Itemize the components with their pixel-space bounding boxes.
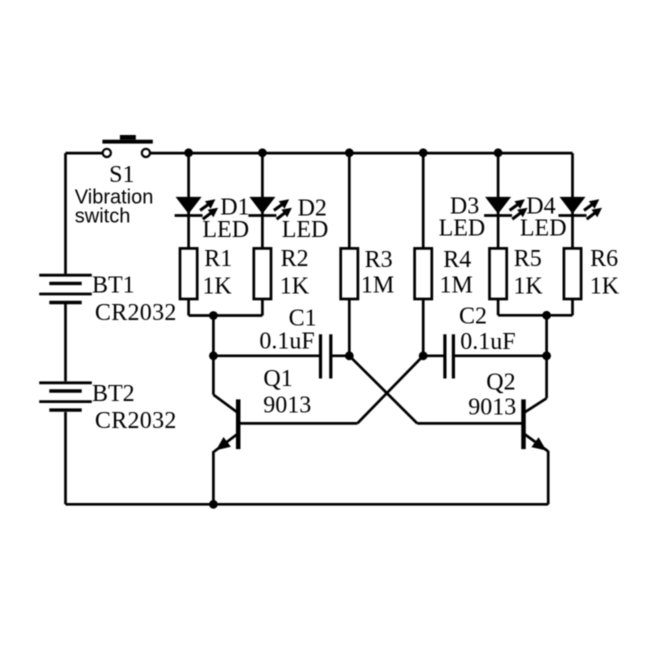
svg-text:Q1: Q1 [263, 366, 292, 392]
svg-text:LED: LED [202, 217, 249, 243]
svg-text:9013: 9013 [468, 395, 516, 421]
svg-text:9013: 9013 [263, 393, 311, 419]
svg-text:1K: 1K [590, 273, 620, 299]
svg-text:R4: R4 [443, 247, 471, 273]
svg-text:R6: R6 [590, 246, 618, 272]
svg-text:LED: LED [282, 217, 329, 243]
svg-text:R3: R3 [365, 247, 393, 273]
svg-text:1M: 1M [440, 273, 473, 299]
svg-text:LED: LED [439, 215, 486, 241]
svg-text:switch: switch [75, 206, 131, 228]
svg-text:1K: 1K [513, 273, 543, 299]
svg-text:CR2032: CR2032 [95, 408, 177, 434]
svg-text:R2: R2 [281, 246, 309, 272]
svg-text:CR2032: CR2032 [95, 300, 177, 326]
svg-text:1M: 1M [361, 273, 394, 299]
svg-text:R5: R5 [514, 246, 542, 272]
svg-text:LED: LED [520, 215, 567, 241]
svg-text:Q2: Q2 [486, 370, 515, 396]
svg-text:S1: S1 [109, 162, 134, 188]
svg-text:R1: R1 [204, 246, 232, 272]
svg-text:BT1: BT1 [92, 273, 135, 299]
svg-text:0.1uF: 0.1uF [460, 329, 515, 355]
svg-text:C1: C1 [289, 305, 317, 331]
svg-text:C2: C2 [459, 304, 487, 330]
svg-text:0.1uF: 0.1uF [259, 329, 314, 355]
svg-text:1K: 1K [280, 273, 310, 299]
svg-text:BT2: BT2 [92, 381, 135, 407]
svg-text:1K: 1K [202, 273, 232, 299]
